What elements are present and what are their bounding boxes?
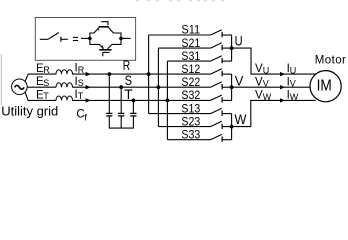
svg-text:T: T — [124, 86, 133, 102]
svg-text:S23: S23 — [181, 115, 200, 128]
node S cap tap — [119, 85, 123, 89]
switch S21 — [158, 43, 231, 51]
bus W vertical — [231, 114, 233, 140]
riser S bus — [157, 48, 159, 127]
equals sign — [73, 37, 78, 40]
svg-text:S31: S31 — [181, 50, 200, 63]
legend node right — [119, 37, 123, 41]
legend bidir switch left lead — [81, 37, 90, 39]
svg-text:W: W — [235, 111, 248, 127]
legend node left — [88, 37, 92, 41]
svg-text:U: U — [235, 32, 243, 48]
switch S22 — [211, 82, 232, 90]
wire phase S — [27, 86, 210, 88]
wire W to motor — [232, 100, 316, 126]
legend switch contact bar — [60, 37, 62, 42]
wire U to motor — [232, 48, 316, 74]
inductor L-S — [56, 83, 73, 87]
node riser S — [157, 85, 161, 89]
svg-text:R: R — [78, 65, 85, 75]
svg-text:V: V — [263, 79, 269, 89]
legend switch wire right — [61, 38, 68, 40]
arrow current IU — [280, 72, 285, 76]
switch S23 — [158, 121, 231, 129]
legend switch blade — [48, 33, 59, 40]
cropped figure-edge remnant line — [0, 54, 2, 105]
node V — [230, 85, 234, 89]
capacitor Cf2 — [118, 113, 124, 116]
node riser T — [166, 99, 170, 103]
IGBT Q-bottom body — [90, 38, 121, 49]
legend bidir switch right lead — [121, 37, 131, 39]
svg-text:S12: S12 — [181, 63, 200, 76]
node T cap tap — [132, 99, 136, 103]
capacitor Cf1 — [106, 113, 112, 116]
svg-text:U: U — [290, 66, 297, 76]
legend box — [35, 18, 135, 61]
bus V vertical — [231, 74, 233, 100]
switch S13 — [149, 108, 232, 116]
IGBT Q-top body — [90, 27, 121, 39]
svg-text:f: f — [84, 112, 87, 123]
arrow current IW — [280, 98, 285, 102]
svg-text:Motor: Motor — [315, 54, 347, 66]
arrow current IV — [280, 85, 285, 89]
wire cap bottom leads and bus — [109, 116, 133, 128]
svg-text:T: T — [78, 91, 84, 101]
svg-text:S: S — [43, 78, 49, 88]
svg-text:S11: S11 — [181, 24, 200, 37]
svg-text:R: R — [43, 65, 50, 75]
svg-text:V: V — [255, 76, 263, 88]
inductor L-T — [56, 96, 73, 100]
node R cap tap — [107, 72, 111, 76]
wire phase T — [28, 99, 210, 101]
switch S11 — [149, 30, 232, 38]
capacitor Cf3 — [130, 113, 136, 116]
switch S12 — [211, 69, 232, 77]
svg-text:V: V — [235, 73, 244, 89]
wire V to motor — [232, 86, 311, 88]
svg-text:S33: S33 — [181, 128, 200, 141]
svg-text:S13: S13 — [181, 102, 200, 115]
ac source G1 — [12, 79, 28, 95]
wire cap drop R — [108, 74, 110, 113]
svg-text:R: R — [123, 57, 130, 73]
svg-text:V: V — [255, 89, 263, 101]
svg-text:S22: S22 — [181, 76, 200, 89]
IGBT Q-bottom gate — [103, 52, 110, 56]
svg-text:V: V — [290, 79, 296, 89]
arrow current IR — [86, 72, 91, 76]
node riser R — [147, 72, 151, 76]
switch S33 — [167, 134, 231, 142]
svg-text:S: S — [78, 78, 84, 88]
wire cap drop T — [132, 100, 134, 113]
inductor L-R — [56, 70, 73, 74]
arrow current IS — [86, 85, 91, 89]
svg-text:V: V — [255, 63, 263, 75]
svg-text:IM: IM — [317, 78, 332, 95]
riser R bus — [148, 35, 150, 114]
wire phase R — [28, 73, 210, 75]
svg-text:S32: S32 — [181, 89, 200, 102]
bus U vertical — [231, 35, 233, 61]
svg-text:W: W — [290, 92, 299, 102]
svg-text:T: T — [43, 91, 49, 101]
node W — [230, 125, 234, 129]
switch S32 — [211, 95, 232, 103]
riser T bus — [166, 61, 168, 140]
svg-text:Utility grid: Utility grid — [1, 103, 58, 118]
wire source to R line — [25, 74, 29, 81]
legend switch wire left — [40, 38, 48, 40]
motor IM circle — [310, 71, 341, 102]
svg-text:W: W — [263, 92, 272, 102]
arrow current IT — [86, 98, 91, 102]
wire cap drop S — [120, 87, 122, 113]
switch S31 — [167, 56, 231, 64]
node U — [230, 46, 234, 50]
svg-text:S21: S21 — [181, 37, 200, 50]
IGBT Q-top gate — [101, 22, 108, 26]
wire source to T line — [25, 92, 29, 100]
svg-text:U: U — [263, 66, 270, 76]
cropped caption remnant specks — [136, 0, 224, 2]
